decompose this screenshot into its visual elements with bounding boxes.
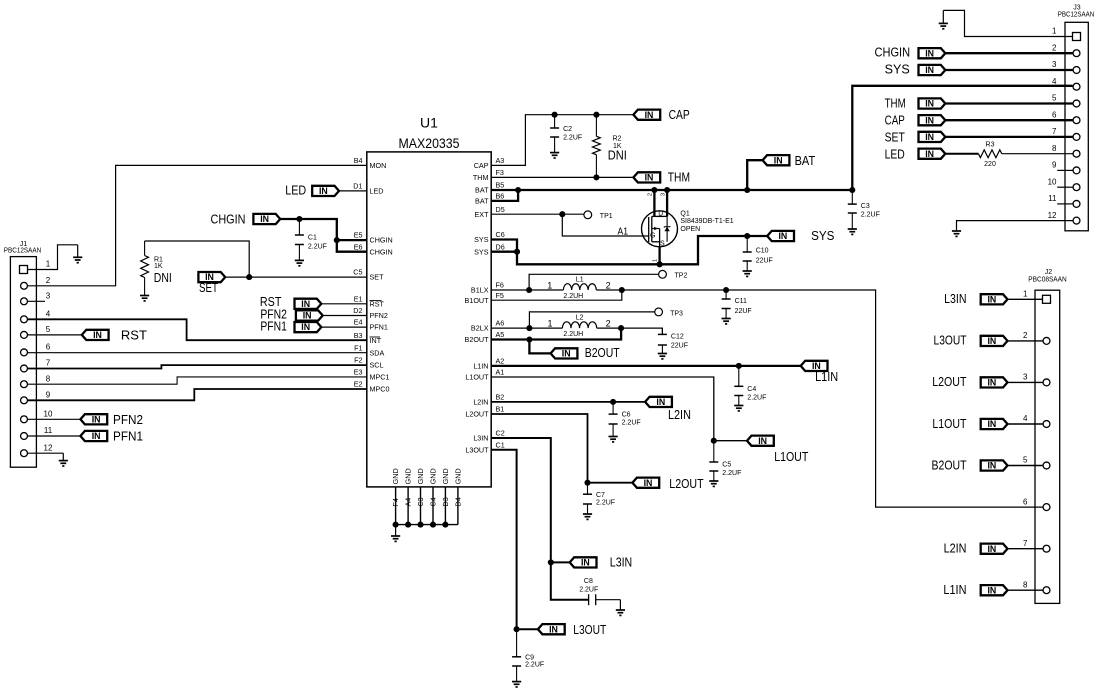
label L2OUT: [669, 477, 704, 491]
capacitor C7: [583, 483, 615, 514]
wire SYS flag to J3 pin3: [945, 69, 1072, 71]
junction: [393, 522, 399, 528]
svg-text:2.2UF: 2.2UF: [579, 587, 598, 594]
wire B2OUT to L2 pin2: [529, 328, 621, 339]
svg-text:A5: A5: [496, 330, 505, 339]
svg-text:L1OUT: L1OUT: [774, 450, 808, 464]
svg-text:1K: 1K: [154, 263, 163, 270]
svg-text:9: 9: [46, 391, 51, 400]
svg-text:8: 8: [1023, 580, 1028, 589]
svg-text:G: G: [650, 233, 655, 240]
label CAP (J3): [885, 114, 905, 128]
svg-text:B2: B2: [496, 393, 505, 402]
svg-text:THM: THM: [885, 97, 906, 111]
svg-text:IN: IN: [925, 65, 934, 75]
svg-text:A3: A3: [496, 156, 505, 165]
svg-text:L1IN: L1IN: [943, 583, 966, 597]
wire J1 pin10 to PFN2 flag: [28, 418, 81, 420]
capacitor C1: [295, 219, 327, 260]
wire BAT to J3 pin4: [852, 86, 1072, 190]
net flag RST: [295, 299, 322, 309]
svg-text:MON: MON: [370, 161, 387, 170]
wire J1 pin2 to U1 MON: [28, 165, 367, 285]
svg-text:2.2UF: 2.2UF: [563, 135, 582, 142]
label LED: [285, 184, 306, 198]
label LED (J3): [885, 147, 905, 161]
svg-text:F3: F3: [496, 168, 504, 177]
svg-text:IN: IN: [656, 397, 665, 407]
net flag B2OUT (J2): [981, 460, 1008, 470]
svg-text:PBC12SAAN: PBC12SAAN: [4, 248, 42, 255]
svg-text:4: 4: [1052, 77, 1057, 86]
label SET: [199, 281, 218, 295]
net flag CHGIN: [253, 214, 280, 224]
junction: [849, 187, 855, 193]
svg-text:L1IN: L1IN: [473, 362, 488, 371]
label SYS: [811, 229, 834, 243]
wire R1 top to SET node: [145, 241, 250, 277]
svg-text:CHGIN: CHGIN: [875, 46, 911, 60]
svg-text:3: 3: [1023, 373, 1028, 382]
ground: [616, 600, 625, 616]
wire RST flag to U1 E1: [321, 303, 367, 305]
svg-text:CAP: CAP: [669, 108, 690, 122]
wire PFN1 flag to U1 E4: [321, 326, 367, 328]
junction: [514, 626, 520, 632]
ground: [658, 354, 667, 359]
label L1OUT: [774, 450, 808, 464]
svg-text:D1: D1: [353, 182, 362, 191]
wire U1 A1 L1OUT: [491, 377, 714, 441]
svg-text:IN: IN: [93, 330, 102, 340]
svg-text:TP2: TP2: [675, 273, 688, 280]
svg-text:2.2UF: 2.2UF: [622, 420, 641, 427]
svg-text:U1: U1: [420, 115, 438, 131]
capacitor C3: [848, 190, 880, 229]
U1 GND pins F4 A4 C3 C4 D3 D4: [391, 468, 462, 524]
svg-text:B4: B4: [354, 156, 363, 165]
junction: [430, 522, 436, 528]
svg-text:3: 3: [1052, 60, 1057, 69]
svg-text:C1: C1: [496, 440, 505, 449]
svg-text:A2: A2: [496, 357, 505, 366]
svg-text:THM: THM: [473, 173, 489, 182]
junction: [593, 174, 599, 180]
label A1: [618, 226, 629, 238]
svg-text:SYS: SYS: [885, 62, 910, 76]
svg-text:2: 2: [1052, 43, 1057, 52]
wire Q1 drain riser: [653, 190, 655, 216]
svg-text:12: 12: [44, 443, 53, 452]
svg-text:IN: IN: [925, 132, 934, 142]
wire LED flag to R3: [945, 153, 978, 155]
svg-text:L2IN: L2IN: [473, 398, 488, 407]
svg-text:IN: IN: [987, 336, 996, 346]
svg-text:2.2UF: 2.2UF: [525, 662, 544, 669]
ground: [59, 453, 68, 466]
label L2IN (J2): [944, 542, 967, 556]
svg-text:SYS: SYS: [474, 235, 489, 244]
junction: [651, 187, 657, 193]
net flag L3IN: [570, 557, 597, 567]
svg-text:L3IN: L3IN: [610, 556, 632, 570]
wire U1 C2 L3IN: [491, 438, 551, 562]
net flag PFN1: [295, 322, 322, 332]
wire U1 B5 BAT bus: [491, 189, 852, 191]
svg-text:BAT: BAT: [475, 186, 489, 195]
wire J1 pin1 to ground: [28, 245, 78, 270]
svg-text:J2: J2: [1045, 269, 1053, 276]
svg-text:IN: IN: [92, 414, 101, 424]
svg-text:IN: IN: [644, 478, 653, 488]
inductor L2 2.2UH: [547, 315, 610, 338]
net flag BAT: [763, 155, 790, 165]
svg-text:CHGIN: CHGIN: [370, 236, 393, 245]
svg-text:E6: E6: [354, 242, 363, 251]
svg-text:B1LX: B1LX: [471, 286, 489, 295]
svg-text:11: 11: [1048, 194, 1057, 203]
svg-text:IN: IN: [987, 585, 996, 595]
wire J1 pin12 to ground: [28, 452, 64, 454]
svg-text:GND: GND: [454, 468, 463, 484]
capacitor C12: [658, 328, 688, 353]
ground: [609, 437, 618, 442]
svg-text:CAP: CAP: [885, 114, 905, 128]
ground: [73, 245, 82, 263]
svg-text:B2LX: B2LX: [471, 324, 489, 333]
junction: [552, 112, 558, 118]
wire EXT to TP1: [562, 213, 584, 215]
junction: [593, 112, 599, 118]
label CHGIN: [211, 212, 246, 226]
wire L3OUT flag stub: [517, 628, 538, 630]
svg-text:1: 1: [653, 259, 659, 262]
svg-text:DNI: DNI: [154, 271, 172, 285]
svg-text:L3OUT: L3OUT: [465, 445, 489, 454]
junction: [664, 187, 670, 193]
label THM: [668, 170, 690, 184]
junction: [334, 237, 340, 243]
net flag SYS (J3): [919, 65, 946, 75]
svg-text:B6: B6: [496, 192, 505, 201]
transistor Q1 SI8439DB-T1-E1: [642, 193, 734, 262]
resistor R2 1K DNI: [593, 115, 627, 178]
junction: [657, 261, 663, 267]
svg-text:1: 1: [1052, 27, 1057, 36]
svg-text:L3IN: L3IN: [473, 434, 488, 443]
label L2IN: [668, 408, 691, 422]
net flag THM: [633, 172, 660, 182]
svg-text:2: 2: [648, 193, 654, 196]
svg-text:IN: IN: [778, 231, 787, 241]
net flag L2OUT: [632, 478, 659, 488]
svg-text:C2: C2: [496, 429, 505, 438]
wire J1 pin6 to U1 SDA: [28, 352, 367, 354]
svg-text:PFN1: PFN1: [113, 430, 143, 444]
svg-text:A6: A6: [496, 319, 505, 328]
wire J3 pin1 to ground: [943, 10, 1072, 36]
svg-text:1: 1: [46, 260, 51, 269]
svg-text:IN: IN: [319, 186, 328, 196]
svg-text:2.2UF: 2.2UF: [747, 394, 766, 401]
capacitor C5: [709, 441, 741, 481]
label L3OUT (J2): [934, 334, 967, 348]
junction: [515, 187, 521, 193]
junction: [619, 287, 625, 293]
svg-text:IN: IN: [925, 115, 934, 125]
test point TP1: [584, 211, 613, 220]
svg-text:L1OUT: L1OUT: [465, 373, 489, 382]
svg-text:2.2UF: 2.2UF: [596, 500, 615, 507]
wire J1 pin9 to U1 MPC0: [28, 389, 367, 400]
svg-text:12: 12: [1048, 211, 1057, 220]
resistor R3 220: [978, 141, 1001, 168]
svg-text:E1: E1: [354, 294, 363, 303]
wire L1OUT flag to J2 pin4: [1008, 423, 1043, 425]
ground: [550, 153, 559, 158]
svg-text:IN: IN: [645, 110, 654, 120]
svg-text:F4: F4: [391, 498, 400, 506]
wire U1 C6 jog: [491, 240, 517, 252]
svg-text:11: 11: [44, 426, 53, 435]
wire L2OUT flag to J2 pin3: [1008, 381, 1043, 383]
wire U1 A5 B2OUT: [491, 338, 529, 340]
ground: [939, 10, 948, 28]
test point TP3: [655, 308, 683, 317]
U1 pin name labels: [353, 156, 504, 454]
svg-text:6: 6: [1052, 110, 1057, 119]
svg-text:L2IN: L2IN: [944, 542, 967, 556]
svg-text:GND: GND: [416, 468, 425, 484]
svg-text:SCL: SCL: [370, 361, 384, 370]
svg-text:IN: IN: [758, 436, 767, 446]
svg-text:IN: IN: [301, 322, 310, 332]
svg-text:IN: IN: [303, 311, 312, 321]
label PFN2: [260, 308, 287, 322]
svg-text:2: 2: [46, 276, 51, 285]
wire CAP flag to J3 pin6: [945, 119, 1072, 121]
wire U1 B2 L2IN: [491, 401, 645, 403]
label B2OUT (J2): [932, 458, 967, 472]
svg-text:PFN1: PFN1: [260, 319, 287, 333]
wire J1 pin8 to U1 MPC1: [28, 377, 367, 384]
capacitor C6: [609, 402, 641, 437]
svg-text:EXT: EXT: [475, 210, 490, 219]
svg-text:D4: D4: [454, 497, 463, 506]
wire PFN2 flag to U1 D2: [323, 315, 367, 317]
wire U1 D6 SYS: [491, 251, 517, 253]
svg-text:2: 2: [606, 280, 611, 290]
label L1IN (J2): [943, 583, 966, 597]
junction: [442, 522, 448, 528]
svg-text:7: 7: [1052, 127, 1057, 136]
junction: [618, 325, 624, 331]
svg-text:IN: IN: [645, 173, 654, 183]
wire CHGIN flag to J3 pin2: [945, 52, 1072, 54]
svg-text:A1: A1: [496, 368, 505, 377]
svg-text:8: 8: [46, 374, 51, 383]
connector J2 PBC08SAAN: [1023, 269, 1067, 603]
wire L3IN to C8: [551, 562, 589, 599]
svg-text:PFN2: PFN2: [370, 311, 388, 320]
svg-text:C7: C7: [596, 492, 605, 499]
svg-text:C1: C1: [308, 235, 317, 242]
wire B1LX to TP2: [529, 274, 659, 290]
junction: [514, 249, 520, 255]
capacitor C2: [550, 115, 582, 153]
net flag LED (J3): [919, 149, 946, 159]
svg-text:6: 6: [46, 343, 51, 352]
wire J3 pin11 stub: [1057, 203, 1072, 205]
svg-text:22UF: 22UF: [671, 342, 688, 349]
svg-text:5: 5: [1052, 94, 1057, 103]
svg-text:S: S: [660, 240, 665, 247]
wire L2 pin2: [597, 327, 621, 329]
wire L1OUT flag stub: [714, 440, 747, 442]
svg-text:IN: IN: [987, 461, 996, 471]
svg-text:E5: E5: [354, 231, 363, 240]
net flag PFN1 (J1): [80, 431, 107, 441]
svg-text:D3: D3: [441, 497, 450, 506]
label PFN1: [260, 319, 287, 333]
svg-text:C12: C12: [671, 334, 684, 341]
net flag CHGIN (J3): [919, 48, 946, 58]
wire BAT flag riser: [747, 160, 762, 190]
svg-text:IN: IN: [987, 419, 996, 429]
junction: [526, 325, 532, 331]
svg-text:GND: GND: [441, 468, 450, 484]
svg-text:4: 4: [1023, 414, 1028, 423]
svg-text:SET: SET: [199, 281, 218, 295]
net flag SET: [198, 272, 225, 282]
svg-text:OPEN: OPEN: [680, 226, 700, 233]
net flag L1IN (J2): [981, 585, 1008, 595]
svg-text:C6: C6: [496, 230, 505, 239]
svg-text:B5: B5: [496, 181, 505, 190]
svg-text:C3: C3: [861, 203, 870, 210]
label PFN2 (J1): [113, 413, 143, 427]
svg-text:2.2UF: 2.2UF: [308, 244, 327, 251]
label BAT: [795, 154, 816, 168]
junction: [405, 522, 411, 528]
resistor R1 1K DNI: [141, 241, 172, 296]
svg-text:F5: F5: [496, 291, 504, 300]
wire J3 pin12 to ground: [957, 220, 1073, 222]
wire L2OUT flag stub: [588, 482, 633, 484]
svg-text:2.2UF: 2.2UF: [722, 470, 741, 477]
svg-text:L2OUT: L2OUT: [669, 477, 704, 491]
wire CHGIN flag to E5/E6: [280, 219, 367, 252]
ground: [709, 481, 718, 486]
wire J1 pin5 to RST flag: [28, 334, 82, 336]
wire U1 F5 B1OUT: [491, 290, 622, 300]
label RST (J1): [121, 328, 147, 342]
IC U1 MAX20335: [367, 115, 491, 487]
connector J1 PBC12SAAN: [4, 241, 53, 467]
svg-text:B2OUT: B2OUT: [465, 335, 490, 344]
net flag L1OUT: [747, 436, 774, 446]
svg-text:IN: IN: [925, 48, 934, 58]
ground: [140, 296, 149, 301]
svg-text:TP3: TP3: [670, 310, 683, 317]
svg-text:D2: D2: [353, 306, 362, 315]
svg-text:L3IN: L3IN: [944, 292, 966, 306]
ground: [583, 514, 592, 519]
wire C12 tap: [621, 328, 662, 334]
wire J1 pin4 to U1 INT: [28, 319, 367, 340]
label L3OUT: [573, 623, 606, 637]
svg-text:GND: GND: [429, 468, 438, 484]
svg-text:E2: E2: [354, 380, 363, 389]
svg-text:SDA: SDA: [370, 348, 385, 357]
svg-text:SI8439DB-T1-E1: SI8439DB-T1-E1: [680, 218, 733, 225]
junction: [559, 211, 565, 217]
net flag L3OUT (J2): [981, 336, 1008, 346]
label SYS (J3): [885, 62, 910, 76]
svg-text:PBC08SAAN: PBC08SAAN: [1028, 277, 1066, 284]
svg-text:9: 9: [1052, 161, 1057, 170]
wire EXT to Q1 gate: [562, 214, 648, 236]
svg-text:C2: C2: [563, 126, 572, 133]
svg-text:B1OUT: B1OUT: [465, 296, 490, 305]
svg-text:R2: R2: [613, 135, 622, 142]
svg-text:4: 4: [46, 310, 51, 319]
svg-text:IN: IN: [581, 558, 590, 568]
wire U1 A6 B2LX: [491, 327, 562, 329]
svg-text:IN: IN: [987, 544, 996, 554]
svg-text:IN: IN: [301, 299, 310, 309]
wire L1 pin2: [596, 289, 622, 291]
svg-text:PFN2: PFN2: [113, 413, 143, 427]
svg-text:L3OUT: L3OUT: [573, 623, 606, 637]
svg-text:F6: F6: [496, 281, 504, 290]
ground: [391, 525, 400, 542]
net flag PFN2 (J1): [80, 414, 107, 424]
net flag PFN2: [296, 310, 323, 320]
svg-text:L2OUT: L2OUT: [465, 410, 489, 419]
svg-text:2.2UH: 2.2UH: [563, 331, 583, 338]
label B2OUT: [585, 346, 620, 360]
wire Q1 source to SYS: [658, 247, 660, 264]
wire L3IN flag stub: [551, 561, 570, 563]
svg-text:B2OUT: B2OUT: [585, 346, 620, 360]
wire U1 A2 L1IN: [491, 365, 801, 367]
inductor L1 2.2UH: [547, 277, 610, 300]
svg-text:DNI: DNI: [608, 149, 627, 163]
junction: [548, 559, 554, 565]
junction: [526, 336, 532, 342]
wire L3OUT flag to J2 pin2: [1008, 340, 1043, 342]
svg-text:IN: IN: [549, 624, 558, 634]
svg-text:3: 3: [46, 292, 51, 301]
wire J1 pin7 to U1 SCL: [28, 365, 367, 368]
ground: [295, 260, 304, 265]
label SET (J3): [885, 131, 906, 145]
svg-text:SET: SET: [370, 273, 385, 282]
junction: [736, 363, 742, 369]
net flag B2OUT: [551, 348, 578, 358]
wire B1OUT to J2 pin6: [622, 290, 1043, 507]
wire B2OUT flag drop: [529, 340, 550, 354]
svg-text:L2IN: L2IN: [668, 408, 691, 422]
svg-text:IN: IN: [92, 431, 101, 441]
junction: [417, 522, 423, 528]
ground: [722, 319, 731, 324]
label CAP: [669, 108, 690, 122]
wire R3 to J3 pin8: [1002, 153, 1073, 155]
net flag L2OUT (J2): [981, 377, 1008, 387]
svg-text:C6: C6: [622, 412, 631, 419]
